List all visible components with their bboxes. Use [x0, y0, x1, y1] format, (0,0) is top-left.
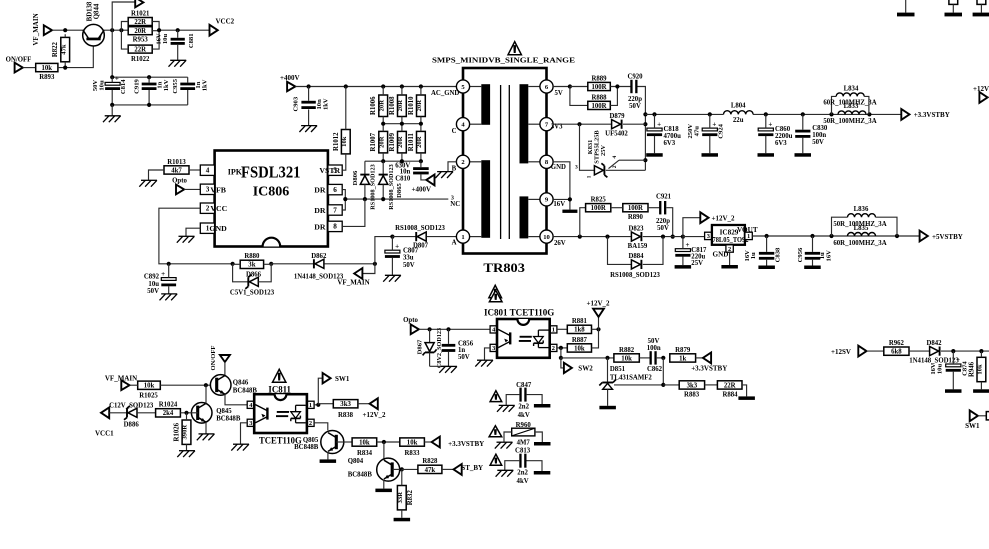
inductor L804	[724, 111, 754, 115]
svg-text:NC: NC	[450, 201, 460, 208]
svg-text:78L05_TO92: 78L05_TO92	[713, 236, 749, 244]
resistor R825	[586, 204, 611, 212]
svg-text:22R: 22R	[724, 382, 736, 389]
IC806 pin 1	[200, 223, 214, 233]
svg-text:+: +	[686, 241, 690, 249]
svg-text:R1012: R1012	[333, 132, 340, 151]
IC806 pin 8 (DR)	[328, 221, 342, 231]
svg-text:60R_100MHZ_3A: 60R_100MHZ_3A	[833, 240, 886, 247]
capacitor C924 (polarized)	[702, 128, 717, 131]
svg-text:D807: D807	[413, 242, 429, 249]
svg-text:25V: 25V	[600, 145, 607, 156]
svg-text:C956: C956	[797, 247, 804, 262]
diode D886 C12V_SOD123 (zener)	[128, 408, 137, 417]
svg-text:GND: GND	[551, 164, 566, 171]
IC811 pin 1	[307, 401, 314, 408]
wire R1025 to Q846 base	[160, 384, 212, 386]
transistor Q805 BC848B (mirrored)	[321, 431, 344, 454]
resistor R946	[977, 357, 986, 381]
warning symbol above IC801	[489, 290, 502, 301]
svg-text:3k: 3k	[248, 262, 255, 269]
wire R884 to ground bar	[742, 385, 747, 397]
svg-text:D866: D866	[246, 271, 262, 278]
wire Opto to IC801 pin4	[419, 328, 490, 330]
wire R822 to base node	[64, 34, 66, 37]
connector SW1 (at IC811)	[323, 373, 331, 383]
transformer core lines	[500, 85, 502, 239]
svg-text:C: C	[452, 128, 457, 135]
svg-text:R1010: R1010	[408, 96, 415, 115]
svg-text:20R: 20R	[416, 136, 423, 148]
IC806 pin 7 (DR)	[328, 205, 342, 215]
svg-text:R1024: R1024	[159, 402, 178, 409]
svg-text:SMPS_MINIDVB_SINGLE_RANGE: SMPS_MINIDVB_SINGLE_RANGE	[432, 56, 575, 65]
capacitor C956	[805, 252, 820, 255]
svg-text:C955: C955	[172, 78, 179, 93]
svg-text:SW2: SW2	[578, 365, 593, 373]
svg-text:D867: D867	[417, 339, 424, 354]
IC806 pin 2	[200, 203, 214, 213]
svg-text:R888: R888	[591, 94, 607, 101]
svg-text:RS1008_SOD123: RS1008_SOD123	[370, 164, 377, 209]
svg-text:C919: C919	[133, 78, 140, 93]
svg-text:+3.3VSTBY: +3.3VSTBY	[691, 364, 727, 372]
svg-text:R1022: R1022	[131, 56, 150, 63]
svg-text:R882: R882	[619, 347, 635, 354]
wire Q804 collector up to node	[383, 442, 385, 459]
svg-text:20R: 20R	[378, 100, 385, 112]
svg-text:3: 3	[492, 345, 495, 352]
wire R828 to ST_BY	[442, 468, 454, 470]
resistor R882	[614, 354, 639, 362]
svg-text:10u: 10u	[148, 281, 159, 288]
svg-text:4700u: 4700u	[664, 133, 682, 140]
connector ST_BY	[454, 464, 462, 475]
svg-text:IC801 TCET110G: IC801 TCET110G	[484, 307, 554, 317]
connector VCC2	[210, 25, 218, 36]
svg-text:D886: D886	[124, 422, 140, 429]
ground bar under C817	[675, 265, 692, 269]
svg-text:C920: C920	[627, 74, 643, 81]
ground (earth) at IC801 pin3	[475, 360, 493, 366]
svg-text:4k7: 4k7	[171, 167, 182, 174]
wire to VCC2	[152, 30, 159, 32]
transformer pin 4	[456, 118, 469, 131]
connector (top edge, cut)	[135, 0, 143, 7]
ground (earth) under C881	[169, 60, 187, 66]
transformer pin 1	[456, 230, 469, 243]
svg-text:VSTR: VSTR	[319, 166, 340, 175]
wire R883 branch	[662, 358, 664, 385]
ground bar under D851	[599, 406, 616, 410]
svg-text:50R_100MHZ_3A: 50R_100MHZ_3A	[823, 118, 876, 125]
wire pin7 3V3 line	[553, 123, 612, 125]
wire pin6 to R889/R888	[553, 86, 570, 88]
wire R825 branch	[580, 208, 586, 237]
wire ON/OFF to R893	[23, 67, 36, 69]
capacitor C892 (polarized)	[161, 278, 176, 281]
wire R880 to D862	[271, 263, 314, 265]
transformer primary winding bar (pins 5-4)	[481, 84, 490, 125]
svg-text:RS1008_SOD123: RS1008_SOD123	[388, 164, 395, 209]
svg-text:6: 6	[333, 186, 337, 194]
wire R1024 to Q845 base	[180, 412, 197, 414]
svg-text:R953: R953	[133, 36, 149, 43]
svg-text:D823: D823	[628, 225, 644, 232]
svg-text:+: +	[115, 75, 119, 83]
resistor (top right corner, partial) with ground bar	[977, 0, 986, 4]
ground bar under C924	[702, 153, 719, 157]
svg-text:C881: C881	[188, 33, 195, 48]
svg-text:C12V_SOD123: C12V_SOD123	[109, 402, 154, 409]
svg-text:22R: 22R	[134, 47, 146, 54]
svg-text:DR: DR	[314, 186, 326, 195]
svg-text:C847: C847	[516, 382, 532, 389]
svg-text:DR: DR	[314, 206, 326, 215]
svg-text:1: 1	[747, 233, 750, 240]
svg-text:ON/OFF: ON/OFF	[6, 57, 32, 64]
svg-text:10k: 10k	[359, 439, 370, 446]
connector SW1 (bottom right)	[970, 410, 978, 421]
diode D807 RS1008_SOD123	[392, 236, 416, 238]
wire pins 8+9 to ground	[553, 162, 570, 210]
transformer winding stubs	[470, 86, 482, 88]
svg-text:D842: D842	[926, 340, 942, 347]
regulator IC829 78L05 input pin	[705, 232, 712, 239]
svg-text:RS1008_SOD123: RS1008_SOD123	[610, 272, 660, 279]
ground (earth) under R1026	[177, 451, 195, 457]
wire 26V rail to IC829	[683, 236, 705, 238]
ground bar under C956	[804, 266, 821, 270]
svg-text:R825: R825	[591, 197, 607, 204]
svg-text:220p: 220p	[656, 218, 670, 225]
svg-text:+: +	[768, 120, 772, 128]
IC801 pin 3	[490, 344, 497, 351]
resistor R822	[61, 37, 70, 61]
svg-text:+: +	[657, 120, 661, 128]
IC801 pin 2	[550, 344, 557, 351]
wire R893/R822 to Q844 base	[58, 41, 93, 68]
svg-text:D879: D879	[609, 113, 625, 120]
ground (earth) at C813	[496, 470, 514, 476]
inductor L833 (on line)	[838, 111, 866, 115]
connector +5VSTBY	[920, 231, 928, 242]
svg-text:C810: C810	[395, 175, 411, 182]
diode D806 RS1008_SOD123	[364, 161, 366, 174]
resistor R1010	[417, 95, 426, 117]
svg-text:GND: GND	[209, 224, 227, 233]
connector +3.3VSTBY (feedback)	[703, 353, 711, 364]
svg-text:+12V: +12V	[973, 85, 989, 93]
svg-text:2200u: 2200u	[775, 133, 793, 140]
wire pin2 node down / SW2	[560, 348, 562, 358]
svg-text:2n2: 2n2	[518, 403, 529, 410]
capacitor C807 (polarized)	[385, 250, 400, 253]
wire R962 to D842	[909, 350, 929, 352]
warning symbol below transformer	[489, 285, 502, 297]
svg-text:50V: 50V	[403, 262, 415, 269]
svg-text:R946: R946	[968, 361, 975, 377]
svg-text:2: 2	[612, 165, 618, 168]
ground (earth) at IC806 pin1	[177, 236, 195, 242]
svg-text:1: 1	[552, 327, 555, 334]
resistor R879	[670, 354, 696, 362]
transformer pin 8	[540, 155, 553, 168]
svg-text:5V: 5V	[555, 90, 563, 97]
diode D823 BA159	[631, 232, 640, 241]
capacitor C810	[413, 167, 429, 170]
svg-text:C813: C813	[515, 447, 531, 454]
svg-text:10k: 10k	[574, 345, 585, 352]
svg-text:R884: R884	[722, 391, 738, 398]
IC811 pin 3	[247, 419, 254, 426]
transistor Q846 BC848B	[210, 375, 231, 396]
ground bar at C847	[534, 404, 551, 408]
capacitor C881	[171, 38, 185, 41]
svg-text:R881: R881	[572, 318, 588, 325]
wire Q805 emitter to ground	[327, 452, 329, 459]
wire Q805 base to R834	[336, 441, 352, 443]
connector +12V_2 (above R881)	[593, 309, 604, 317]
ground bar under R832	[394, 518, 411, 522]
svg-text:R1006: R1006	[370, 96, 377, 115]
transformer pin 7	[540, 118, 553, 131]
wire +400V rail	[295, 86, 456, 88]
wire D867/C856 bottom rail + ground	[430, 365, 449, 367]
IC811 pin 2	[307, 419, 314, 426]
svg-text:AC_GND: AC_GND	[431, 90, 459, 97]
svg-text:L835: L835	[854, 225, 869, 232]
svg-text:100R: 100R	[591, 84, 606, 91]
svg-text:20R: 20R	[134, 28, 146, 35]
svg-text:C892: C892	[144, 274, 160, 281]
diode D862 1N4148_SOD123	[315, 259, 324, 268]
resistor R1021	[128, 18, 152, 26]
svg-text:22u: 22u	[733, 117, 744, 124]
diode D884 RS1008_SOD123 (parallel)	[608, 237, 633, 265]
wire snubber columns	[382, 87, 384, 96]
svg-text:10u: 10u	[99, 80, 106, 91]
wire Q845 emitter to ground	[205, 422, 207, 433]
svg-text:47k: 47k	[425, 467, 436, 474]
svg-text:2k4: 2k4	[163, 410, 174, 417]
svg-text:L833: L833	[844, 103, 859, 110]
svg-text:VFB: VFB	[210, 185, 226, 194]
svg-text:4: 4	[612, 156, 618, 159]
svg-text:VCC: VCC	[210, 204, 227, 213]
resistor R1008	[398, 95, 407, 117]
ground (earth) at C856	[439, 366, 457, 372]
wire 3.3V output rail	[645, 113, 723, 115]
wire IC829 gnd to ground bar	[729, 252, 731, 265]
svg-text:2n2: 2n2	[517, 470, 528, 477]
capacitor C955	[180, 83, 195, 86]
IC806 pin 5 (VSTR)	[328, 165, 342, 175]
svg-text:+400V: +400V	[412, 186, 432, 194]
diode D842 1N4148_SOD123	[930, 347, 939, 356]
resistor R880	[240, 260, 263, 268]
svg-text:R838: R838	[338, 412, 354, 419]
diode D879 UF5402	[612, 120, 621, 129]
wire snubber cap rail	[111, 30, 113, 77]
svg-text:22R: 22R	[134, 19, 146, 26]
svg-text:4: 4	[206, 167, 210, 175]
shunt regulator D851 TL431SAMF2	[607, 358, 609, 382]
svg-text:L834: L834	[844, 85, 859, 92]
wire Q845 collector up to base line	[205, 385, 207, 403]
optocoupler IC801 body	[497, 319, 550, 358]
connector +3.3VSTBY (top right)	[901, 109, 909, 120]
wire parallel-resistor right rail	[152, 22, 159, 50]
svg-text:BC848B: BC848B	[294, 444, 319, 451]
svg-text:6V3: 6V3	[775, 140, 787, 147]
svg-text:VCC1: VCC1	[95, 430, 114, 438]
capacitor C814 (polarized)	[105, 82, 120, 85]
svg-text:VCC2: VCC2	[215, 18, 234, 26]
regulator IC829 body	[712, 225, 745, 245]
svg-text:D851: D851	[610, 366, 626, 373]
svg-text:SW1: SW1	[335, 375, 350, 383]
wire pin1 up to SW1	[318, 378, 322, 405]
IC801 pin 4	[490, 326, 497, 333]
IC801 pin 1	[550, 326, 557, 333]
capacitor C920	[630, 80, 632, 93]
svg-text:16V: 16V	[553, 201, 565, 208]
svg-text:+12V_2: +12V_2	[712, 214, 736, 222]
resistor R887	[557, 347, 567, 349]
capacitor C856	[442, 344, 456, 347]
svg-text:100n: 100n	[647, 345, 661, 352]
wire R887 up to +12V_2 node	[592, 329, 599, 348]
wire +12SV to R962	[867, 350, 884, 352]
svg-text:100n: 100n	[812, 132, 826, 139]
svg-text:R1021: R1021	[131, 11, 150, 18]
svg-text:+12V_2: +12V_2	[586, 299, 610, 307]
capacitor C817 (polarized)	[675, 249, 690, 252]
svg-text:Q805: Q805	[303, 437, 319, 444]
svg-text:R1009: R1009	[389, 132, 396, 151]
svg-text:1: 1	[461, 234, 464, 241]
svg-text:3: 3	[575, 164, 578, 170]
wire feedback line to R882	[561, 357, 614, 359]
IC811 pin 4	[247, 401, 254, 408]
svg-text:47k: 47k	[60, 44, 67, 55]
capacitor C921	[659, 201, 661, 214]
inductor L836 (top of pair)	[832, 217, 848, 236]
svg-text:IC806: IC806	[253, 185, 290, 200]
wire R833 to +3.3VSTBY	[424, 441, 431, 443]
svg-text:D862: D862	[311, 253, 327, 260]
ground bar at R960	[534, 442, 551, 446]
svg-text:R1025: R1025	[139, 392, 158, 399]
wire ON/OFF to Q846 collector	[224, 362, 226, 375]
svg-text:2: 2	[206, 205, 210, 213]
svg-text:20R: 20R	[397, 136, 404, 148]
svg-text:1: 1	[586, 175, 592, 178]
svg-text:10k: 10k	[341, 136, 348, 147]
svg-text:3: 3	[707, 233, 710, 240]
wire VCC pin down to VCC rail	[159, 208, 200, 264]
resistor R1026	[182, 420, 191, 444]
svg-text:C5V1_SOD123: C5V1_SOD123	[230, 290, 275, 297]
svg-text:10k: 10k	[42, 65, 53, 72]
warning symbol at C847	[490, 391, 502, 402]
svg-text:R822: R822	[52, 41, 59, 57]
resistor (cut at right edge)	[986, 412, 989, 420]
svg-text:1u: 1u	[750, 252, 757, 259]
svg-text:R834: R834	[357, 450, 373, 457]
svg-text:C838: C838	[775, 247, 782, 262]
svg-text:TR803: TR803	[483, 261, 525, 275]
svg-text:ST_BY: ST_BY	[461, 464, 483, 472]
wire VF_MAIN node up to C807/D807 line	[375, 237, 393, 264]
wire IC801 pin3 to ground	[485, 348, 491, 360]
resistor R1012	[341, 130, 350, 154]
wire snubber bottom rail	[365, 160, 421, 162]
svg-text:A: A	[452, 240, 457, 247]
svg-text:L804: L804	[731, 103, 746, 110]
svg-text:1k8: 1k8	[574, 327, 585, 334]
resistor R953 (20R)	[128, 27, 152, 35]
resistor R1007	[379, 131, 388, 153]
resistor (top edge, partial) with ground bar	[949, 0, 958, 4]
svg-text:8: 8	[333, 223, 337, 231]
svg-text:10n: 10n	[400, 168, 411, 175]
optocoupler IC811 body	[254, 394, 307, 433]
resistor R1024	[156, 409, 181, 417]
transformer pin 9	[540, 193, 553, 206]
transformer pin 5	[456, 80, 469, 93]
resistor R893	[36, 63, 58, 71]
wire SW1 to edge resistor	[978, 415, 986, 417]
ground bar at Q804	[375, 489, 392, 493]
wire IC811 pin1 node	[314, 404, 318, 406]
svg-text:Q844: Q844	[93, 3, 100, 19]
transformer pin 10	[540, 230, 553, 243]
svg-text:1: 1	[309, 402, 312, 409]
svg-text:100R: 100R	[591, 103, 606, 110]
svg-text:1kV: 1kV	[322, 98, 329, 110]
svg-text:R1013: R1013	[167, 159, 186, 166]
svg-text:ON/OFF: ON/OFF	[210, 346, 217, 371]
transformer pin 2	[456, 155, 469, 168]
svg-text:100R: 100R	[628, 205, 643, 212]
svg-text:3k3: 3k3	[340, 401, 351, 408]
diode D866 C5V1_SOD123 (zener)	[233, 264, 249, 282]
resistor R838	[333, 400, 358, 408]
wire pin1 to R838	[318, 403, 333, 405]
svg-text:Q846: Q846	[233, 380, 249, 387]
transistor Q844 BD138	[83, 24, 105, 46]
connector VF_MAIN (aux supply)	[362, 264, 375, 274]
svg-text:1kV: 1kV	[163, 79, 170, 91]
svg-text:FSDL321: FSDL321	[241, 162, 301, 181]
regulator IC829 output pin	[745, 232, 752, 239]
svg-text:7: 7	[333, 206, 337, 214]
svg-text:R833: R833	[404, 450, 420, 457]
svg-text:+400V: +400V	[280, 74, 300, 82]
svg-text:10u: 10u	[162, 34, 169, 45]
wire TL431 ref line	[614, 384, 663, 386]
svg-text:R828: R828	[422, 458, 438, 465]
svg-text:10k: 10k	[407, 439, 418, 446]
resistor R883	[679, 381, 704, 389]
svg-text:2: 2	[552, 345, 555, 352]
warning symbol above IC811	[273, 369, 286, 382]
wire D807 to transformer pin 1	[427, 236, 457, 238]
ground bar (top edge, partial)	[905, 0, 907, 13]
capacitor C903	[301, 101, 315, 104]
